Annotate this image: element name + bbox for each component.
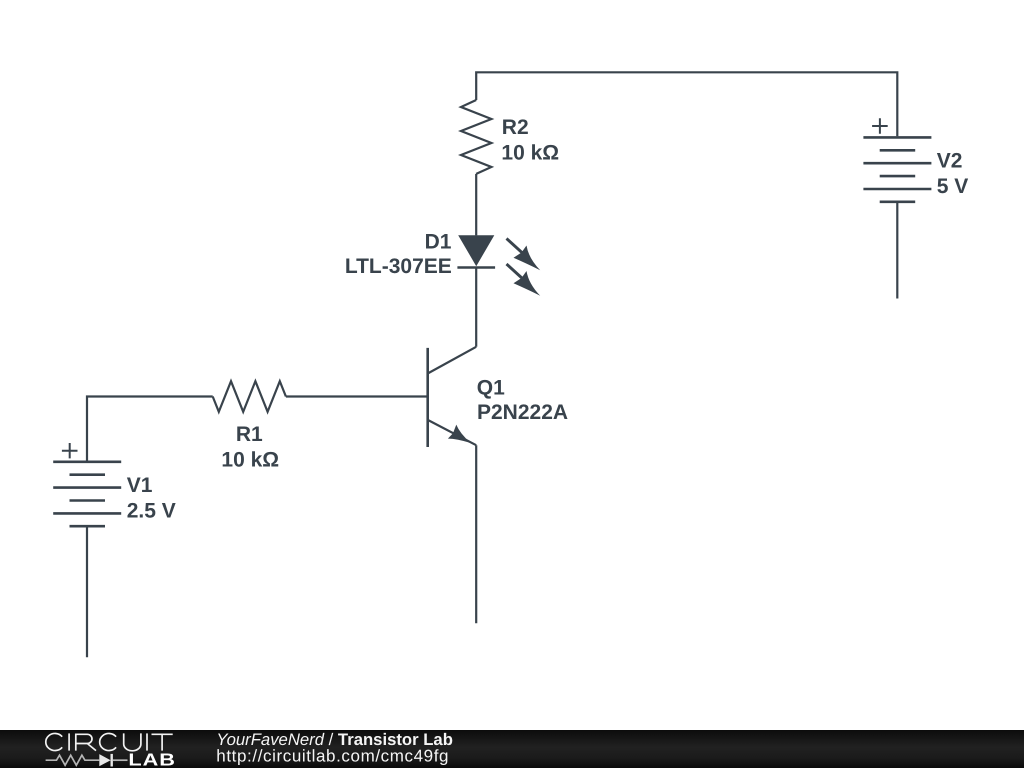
wire Q1 emitter stub [475,445,477,623]
battery V1 plus sign [62,443,78,458]
svg-text:R2: R2 [502,116,529,139]
svg-text:P2N222A: P2N222A [477,401,568,424]
logo mini resistor-diode [46,755,128,765]
battery V1 plate 3 (long) [53,486,121,489]
transistor Q1 [428,347,477,447]
svg-text:V1: V1 [127,474,153,497]
battery V2 [863,137,931,201]
svg-text:LTL-307EE: LTL-307EE [345,255,452,278]
svg-text:http://circuitlab.com/cmc49fg: http://circuitlab.com/cmc49fg [216,747,449,766]
battery V1 plate 2 (short) [70,473,106,476]
resistor R1 [213,381,286,412]
transistor Q1 emitter arrow [448,425,471,443]
battery V1 plate 1 (positive, long) [53,460,121,463]
LED light arrow 1 [507,239,541,271]
svg-text:2.5 V: 2.5 V [127,500,176,523]
svg-text:V2: V2 [937,149,963,172]
battery V2 plate 5 (long) [863,188,931,191]
battery V2 plate 6 (negative, short) [880,201,916,204]
svg-text:Q1: Q1 [477,377,505,400]
battery V1 plate 5 (long) [53,512,121,515]
LED light arrow 2 [507,264,541,296]
LED D1 cathode bar [457,266,495,269]
svg-text:R1: R1 [236,423,263,446]
wire top rail from R2 to V2 [476,72,897,136]
battery V1 plate 6 (negative, short) [70,525,106,528]
wire R2 bottom to LED anode [475,174,477,236]
wire LED cathode to Q1 collector [475,268,477,347]
resistor R2 [461,100,491,174]
wire base: V1 to R1 to Q1 base [87,397,428,462]
battery V1 plate 4 (short) [70,499,106,502]
LED D1 anode triangle [458,235,494,266]
LED D1 [457,235,495,267]
wire V1 bottom stub [86,526,88,657]
transistor Q1 base bar [426,348,429,447]
transistor Q1 emitter lead [428,420,477,445]
battery V2 plate 3 (long) [863,162,931,165]
svg-text:D1: D1 [425,230,452,253]
svg-text:LAB: LAB [128,750,176,768]
battery V2 plate 4 (short) [880,175,916,178]
footer bar [0,730,1024,768]
battery V2 plate 1 (positive, long) [863,136,931,139]
wire V2 bottom stub [896,203,898,299]
logo CIRCUIT wordmark [46,733,173,750]
battery V2 plate 2 (short) [880,149,916,152]
svg-text:5 V: 5 V [937,175,969,198]
battery V2 plus sign [872,118,888,133]
transistor Q1 collector lead [428,347,477,374]
svg-text:10 kΩ: 10 kΩ [221,448,279,471]
svg-text:10 kΩ: 10 kΩ [501,141,559,164]
battery V1 [53,462,121,526]
